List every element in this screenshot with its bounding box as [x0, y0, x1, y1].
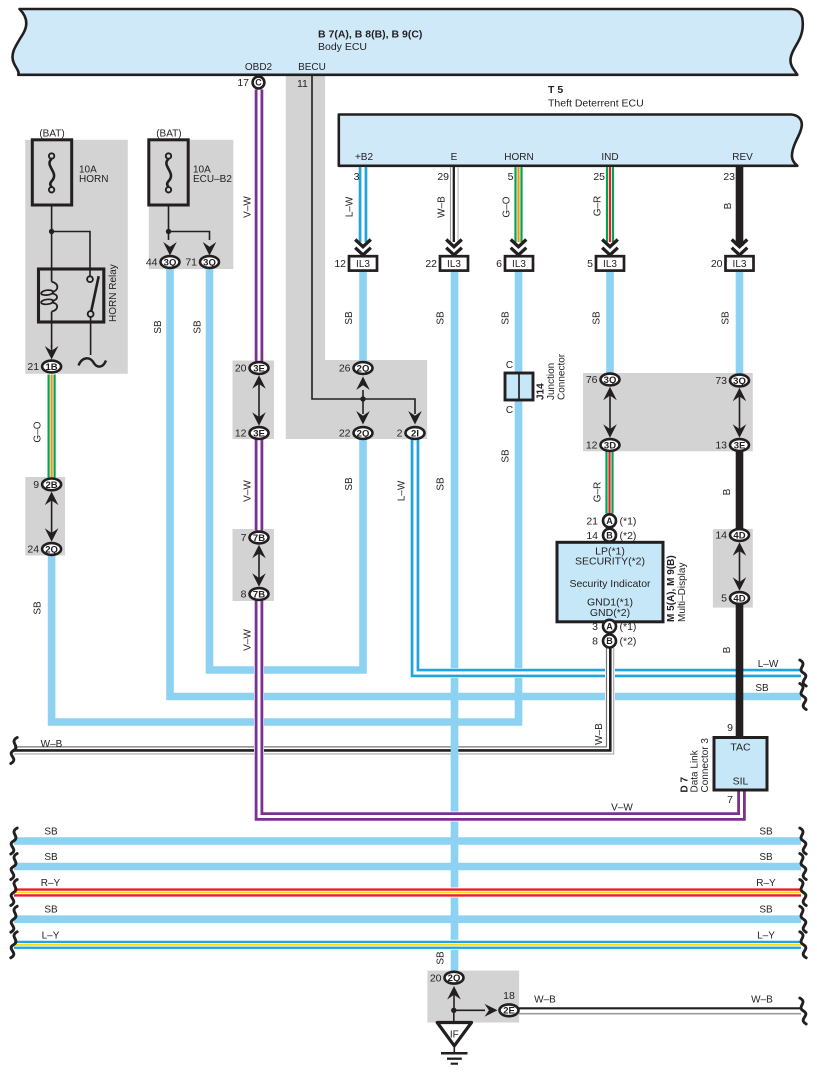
wire SB bus 3 — [14, 915, 801, 923]
connector 20 2Q — [445, 972, 464, 984]
connector 26 2Q — [354, 362, 373, 374]
wire L-Y bus — [14, 940, 801, 950]
svg-text:9: 9 — [33, 479, 39, 491]
svg-text:2Q: 2Q — [357, 363, 370, 374]
ECU banner Body ECU B7/B8/B9 — [12, 9, 802, 75]
svg-text:3D: 3D — [604, 440, 616, 451]
svg-text:HORN Relay: HORN Relay — [108, 264, 119, 322]
wire SB IL3-5 to 76 3Q — [606, 270, 614, 374]
svg-text:25: 25 — [593, 171, 605, 183]
svg-text:Multi–Display: Multi–Display — [677, 563, 688, 622]
connector 21 1B — [42, 361, 61, 373]
wire BECU pin 11 net — [312, 75, 415, 414]
svg-text:11: 11 — [297, 78, 308, 90]
wire L-W from 2 2I to right edge — [415, 440, 801, 674]
wire break mark right — [800, 828, 806, 854]
svg-text:SB: SB — [501, 311, 512, 325]
svg-text:W–B: W–B — [751, 995, 773, 1006]
svg-text:B: B — [606, 530, 613, 540]
wire relay switch to horn — [90, 317, 92, 355]
svg-text:2B: 2B — [46, 480, 58, 491]
svg-text:5: 5 — [508, 171, 514, 183]
lamp Security Indicator — [557, 542, 663, 622]
connector OBD2 C — [253, 77, 265, 89]
connector 8 B — [603, 635, 616, 648]
svg-text:2Q: 2Q — [45, 544, 58, 555]
arrows into IL3-22 — [446, 240, 462, 247]
svg-text:(*1): (*1) — [620, 621, 637, 633]
svg-text:(*1): (*1) — [620, 515, 637, 527]
svg-text:2I: 2I — [411, 428, 419, 439]
svg-text:R–Y: R–Y — [41, 878, 61, 889]
svg-text:SB: SB — [44, 852, 58, 863]
svg-text:SB: SB — [44, 827, 58, 838]
svg-text:SB: SB — [755, 683, 769, 694]
svg-text:(*2): (*2) — [620, 530, 637, 542]
svg-text:3E: 3E — [253, 363, 265, 374]
connector 44 3Q — [161, 256, 180, 268]
svg-text:1B: 1B — [46, 362, 58, 373]
svg-text:SB: SB — [501, 449, 512, 463]
svg-text:SB: SB — [193, 320, 204, 334]
wire W-B ground 2E to right edge — [519, 1007, 801, 1009]
svg-text:C: C — [506, 360, 513, 371]
connector 3 A — [603, 620, 616, 633]
connector 2 2I — [406, 427, 425, 439]
svg-text:SB: SB — [759, 905, 773, 916]
svg-text:L–Y: L–Y — [42, 930, 60, 941]
wire break mark right — [800, 998, 806, 1024]
wire G-O drop from HORN pin 5 — [514, 167, 524, 242]
junction dot — [451, 1008, 456, 1013]
svg-text:G–O: G–O — [33, 421, 44, 442]
pair arrows 2B-2Q — [51, 497, 53, 536]
svg-text:R–Y: R–Y — [756, 878, 776, 889]
svg-text:3Q: 3Q — [733, 376, 746, 387]
wire relay coil to 1B connector — [51, 322, 53, 347]
connector 12 3E — [250, 427, 269, 439]
svg-text:9: 9 — [727, 722, 733, 734]
svg-text:7: 7 — [241, 532, 247, 544]
svg-text:L–Y: L–Y — [757, 930, 775, 941]
wire fuse ECU-B2 to junction — [168, 205, 170, 240]
svg-text:21: 21 — [27, 361, 39, 373]
wire break mark right — [800, 854, 806, 880]
wire G-O 1B to 2B — [47, 375, 57, 478]
wire to 2E — [454, 1009, 485, 1011]
shading ground junction block — [427, 971, 519, 1023]
arrow into 2E — [485, 1004, 498, 1017]
arrows into IL3-5 — [602, 240, 618, 247]
wire break mark left — [11, 932, 17, 958]
svg-text:SB: SB — [721, 311, 732, 325]
wire break mark right — [800, 932, 806, 958]
connector 22 IL3 — [440, 256, 468, 270]
svg-text:C: C — [506, 405, 513, 416]
connector 71 3Q — [200, 256, 219, 268]
arrow into 44 3Q — [163, 242, 177, 256]
connector 7 7B — [250, 532, 269, 544]
connector 73 3Q — [730, 375, 749, 387]
svg-text:14: 14 — [715, 530, 727, 542]
pair arrows 7B-7B — [258, 551, 260, 582]
svg-text:3Q: 3Q — [203, 257, 216, 268]
svg-text:76: 76 — [586, 374, 598, 386]
wire V-W 8 7B to D7 SIL — [259, 601, 742, 817]
relay HORN Relay — [39, 269, 104, 322]
svg-text:4D: 4D — [733, 530, 745, 541]
svg-text:GND(*2): GND(*2) — [590, 607, 630, 619]
shading BECU junction block — [286, 360, 427, 439]
svg-text:21: 21 — [586, 515, 598, 527]
svg-text:Theft Deterrent ECU: Theft Deterrent ECU — [548, 98, 644, 110]
connector 21 A — [603, 514, 616, 527]
svg-text:3Q: 3Q — [164, 257, 177, 268]
wire break mark right — [800, 906, 806, 932]
wire break mark left — [11, 854, 17, 880]
fuse 10A HORN — [32, 140, 71, 205]
svg-text:A: A — [606, 516, 613, 526]
connector 76 3Q — [601, 374, 620, 386]
svg-text:SB: SB — [344, 477, 355, 491]
svg-text:SB: SB — [592, 311, 603, 325]
wire break mark left — [11, 738, 17, 764]
connector 8 7B — [250, 588, 269, 600]
arrows into IL3-12 — [355, 240, 371, 247]
ground IF — [437, 1023, 471, 1046]
svg-text:5: 5 — [587, 258, 593, 270]
svg-text:V–W: V–W — [243, 480, 254, 502]
wire stub to 26 2Q — [362, 390, 364, 399]
wire SB IL3-22 down to ground 2Q — [451, 270, 459, 972]
connector 22 2Q — [354, 427, 373, 439]
svg-text:20: 20 — [430, 972, 442, 984]
wire break mark right — [800, 684, 806, 710]
svg-text:REV: REV — [732, 152, 753, 163]
wire stub to 22 2Q — [362, 399, 364, 414]
svg-text:SB: SB — [153, 320, 164, 334]
shading 7B connector pair — [233, 529, 275, 601]
svg-text:12: 12 — [334, 258, 346, 270]
svg-text:IL3: IL3 — [733, 259, 747, 270]
wire break mark left — [11, 906, 17, 932]
wire SB 22 2Q down around to 71 3Q — [210, 269, 364, 670]
svg-text:8: 8 — [241, 589, 247, 601]
svg-text:Security Indicator: Security Indicator — [569, 578, 651, 590]
connector 9 2B — [42, 479, 61, 491]
svg-text:C: C — [255, 78, 262, 88]
wire SB 44 3Q to right edge — [170, 269, 801, 697]
svg-text:A: A — [606, 622, 613, 632]
svg-text:(*2): (*2) — [620, 636, 637, 648]
svg-text:W–B: W–B — [437, 196, 448, 218]
svg-text:SB: SB — [436, 477, 447, 491]
wire branch to horn relay switch — [52, 232, 90, 277]
svg-text:W–B: W–B — [534, 995, 556, 1006]
wire SB J14 down around to 24 2Q — [52, 399, 519, 722]
svg-text:SB: SB — [436, 311, 447, 325]
arrows into IL3-6 — [511, 240, 527, 247]
junction dot — [360, 396, 365, 401]
connector 13 3E — [730, 439, 749, 451]
connector 20 3E — [250, 362, 269, 374]
svg-text:3: 3 — [592, 621, 598, 633]
svg-text:12: 12 — [235, 428, 247, 440]
horn continuation squiggle — [79, 358, 107, 366]
wire SB IL3-6 to J14 — [515, 270, 523, 374]
svg-text:W–B: W–B — [41, 739, 63, 750]
svg-text:29: 29 — [437, 171, 449, 183]
wire B 5 4D to D7 TAC — [736, 605, 744, 739]
svg-text:BECU: BECU — [298, 62, 326, 73]
wire fuse HORN to junction and relay — [51, 205, 53, 268]
wire B drop from REV pin 23 — [736, 167, 744, 246]
svg-text:B 7(A), B 8(B), B 9(C): B 7(A), B 8(B), B 9(C) — [318, 29, 422, 41]
wire L-W drop from +B2 pin 3 — [358, 167, 368, 242]
svg-text:SB: SB — [344, 311, 355, 325]
svg-text:V–W: V–W — [243, 629, 254, 651]
wire SB bus 1 — [14, 837, 801, 845]
connector 24 2Q — [42, 543, 61, 555]
svg-text:(BAT): (BAT) — [156, 129, 181, 140]
connector 18 2E — [500, 1004, 519, 1016]
svg-text:44: 44 — [146, 257, 158, 269]
svg-text:2Q: 2Q — [357, 428, 370, 439]
connector 20 IL3 — [726, 256, 754, 270]
connector 5 4D — [730, 592, 749, 604]
svg-text:3E: 3E — [253, 428, 265, 439]
svg-text:HORN: HORN — [79, 174, 108, 185]
svg-text:IND: IND — [601, 152, 618, 163]
svg-text:Connector: Connector — [557, 353, 568, 400]
connector 12 IL3 — [349, 256, 377, 270]
svg-text:IL3: IL3 — [603, 259, 617, 270]
svg-text:4D: 4D — [733, 593, 745, 604]
svg-text:8: 8 — [592, 636, 598, 648]
arrow into 26 2Q — [356, 377, 370, 391]
svg-text:M 5(A), M 9(B): M 5(A), M 9(B) — [666, 555, 677, 622]
svg-text:HORN: HORN — [504, 152, 533, 163]
svg-text:IL3: IL3 — [512, 259, 526, 270]
svg-text:G–R: G–R — [593, 196, 604, 217]
svg-text:22: 22 — [425, 258, 437, 270]
svg-text:B: B — [722, 488, 733, 495]
svg-text:7B: 7B — [253, 533, 265, 544]
svg-text:7: 7 — [727, 794, 733, 806]
arrow into 1B — [45, 346, 59, 360]
pair arrows 3Q-3E — [739, 394, 741, 433]
svg-text:SB: SB — [44, 905, 58, 916]
junction dot — [49, 229, 54, 234]
wire break mark left — [11, 828, 17, 854]
svg-text:G–O: G–O — [502, 196, 513, 217]
wire break mark left — [11, 880, 17, 906]
wire W-B drop from E pin 29 — [450, 167, 452, 242]
wire SB bus 2 — [14, 863, 801, 871]
svg-text:3Q: 3Q — [604, 375, 617, 386]
svg-text:+B2: +B2 — [355, 152, 374, 163]
shading HORN fuse+relay block — [25, 140, 128, 374]
wire R-Y bus — [14, 888, 801, 898]
pair arrows 4D-4D — [739, 548, 741, 585]
svg-text:IF: IF — [450, 1029, 459, 1040]
svg-text:Junction: Junction — [546, 363, 557, 400]
svg-text:B: B — [722, 646, 733, 653]
svg-text:SB: SB — [759, 852, 773, 863]
shading 3E connector pair — [233, 361, 275, 440]
svg-text:B: B — [723, 202, 734, 209]
svg-text:2E: 2E — [503, 1006, 515, 1017]
arrow into 71 3Q — [203, 242, 217, 256]
shading 4D connector pair — [713, 529, 753, 608]
arrow into 2 2I — [408, 411, 422, 425]
svg-text:26: 26 — [339, 363, 351, 375]
wire W-B security indicator GND to left edge — [14, 648, 610, 751]
connector 12 3D — [601, 439, 620, 451]
svg-text:OBD2: OBD2 — [245, 62, 273, 73]
svg-text:V–W: V–W — [243, 196, 254, 218]
svg-text:14: 14 — [586, 530, 598, 542]
svg-text:L–W: L–W — [758, 659, 779, 670]
svg-text:24: 24 — [27, 544, 39, 556]
wire break mark right — [800, 660, 806, 686]
svg-text:2: 2 — [397, 428, 403, 440]
svg-text:T 5: T 5 — [548, 84, 563, 96]
svg-text:J14: J14 — [536, 383, 547, 400]
arrow into 20 2Q — [447, 986, 461, 1000]
svg-text:SB: SB — [759, 827, 773, 838]
connector 6 IL3 — [505, 256, 533, 270]
svg-text:2Q: 2Q — [448, 973, 461, 984]
connector D7 Data Link Connector 3 — [714, 738, 767, 791]
wire G-R 3D to security indicator — [605, 452, 615, 514]
wire V-W OBD2 C to 20 3E — [254, 90, 264, 362]
svg-text:3: 3 — [354, 171, 360, 183]
svg-text:6: 6 — [496, 258, 502, 270]
svg-text:13: 13 — [715, 440, 727, 452]
shading ECU-B2 fuse block — [149, 140, 234, 269]
svg-text:5: 5 — [721, 593, 727, 605]
svg-text:23: 23 — [723, 171, 735, 183]
wire SB over W-B crossing — [451, 741, 459, 761]
ECU box T5 Theft Deterrent ECU — [339, 115, 802, 166]
svg-text:W–B: W–B — [594, 723, 605, 745]
connector 14 B — [603, 529, 616, 542]
wire B 3E to 14 4D — [736, 452, 744, 529]
svg-text:Connector 3: Connector 3 — [700, 738, 711, 793]
pair arrows 3E-3E — [258, 381, 260, 420]
svg-text:18: 18 — [503, 990, 515, 1002]
svg-text:20: 20 — [235, 363, 247, 375]
svg-text:ECU–B2: ECU–B2 — [193, 174, 232, 185]
svg-text:SB: SB — [33, 601, 44, 615]
shading BECU wire strip — [286, 76, 325, 361]
svg-text:22: 22 — [339, 428, 351, 440]
svg-text:IL3: IL3 — [447, 259, 461, 270]
svg-text:12: 12 — [586, 440, 598, 452]
svg-text:(BAT): (BAT) — [39, 129, 64, 140]
pair arrows 3Q-3D — [609, 393, 611, 433]
junction connector J14 — [505, 373, 533, 400]
svg-text:IL3: IL3 — [356, 259, 370, 270]
svg-text:3E: 3E — [734, 440, 746, 451]
junction dot — [166, 229, 171, 234]
wire V-W 12 3E to 7 7B — [254, 440, 264, 531]
svg-text:TAC: TAC — [730, 742, 751, 754]
svg-text:SB: SB — [436, 951, 447, 965]
wire G-R drop from IND pin 25 — [605, 167, 615, 242]
arrows into IL3-20 — [732, 240, 748, 247]
svg-text:71: 71 — [185, 257, 197, 269]
svg-text:SECURITY(*2): SECURITY(*2) — [575, 556, 645, 568]
wire branch to 71 3Q — [169, 232, 210, 241]
svg-text:7B: 7B — [253, 589, 265, 600]
connector 14 4D — [730, 529, 749, 541]
svg-text:L–W: L–W — [345, 196, 356, 217]
connector 5 IL3 — [596, 256, 624, 270]
arrow into 22 2Q — [356, 411, 370, 425]
shading 2B/2Q connector pair — [25, 477, 65, 556]
svg-text:73: 73 — [715, 375, 727, 387]
svg-text:G–R: G–R — [593, 482, 604, 503]
svg-text:E: E — [451, 152, 458, 163]
svg-text:Body ECU: Body ECU — [318, 41, 367, 53]
svg-text:20: 20 — [711, 258, 723, 270]
shading 3Q/3D/3E connector block — [583, 373, 753, 451]
svg-text:17: 17 — [237, 77, 249, 89]
fuse 10A ECU-B2 — [149, 140, 188, 205]
svg-text:V–W: V–W — [611, 803, 633, 814]
wire SB IL3-20 to 73 3Q — [736, 270, 744, 375]
wire SB IL3-12 to 26 2Q — [359, 270, 367, 362]
wire break mark right — [800, 880, 806, 906]
svg-text:B: B — [606, 636, 613, 646]
svg-text:SIL: SIL — [733, 776, 749, 788]
svg-text:L–W: L–W — [397, 480, 408, 501]
svg-text:Data Link: Data Link — [690, 749, 701, 792]
